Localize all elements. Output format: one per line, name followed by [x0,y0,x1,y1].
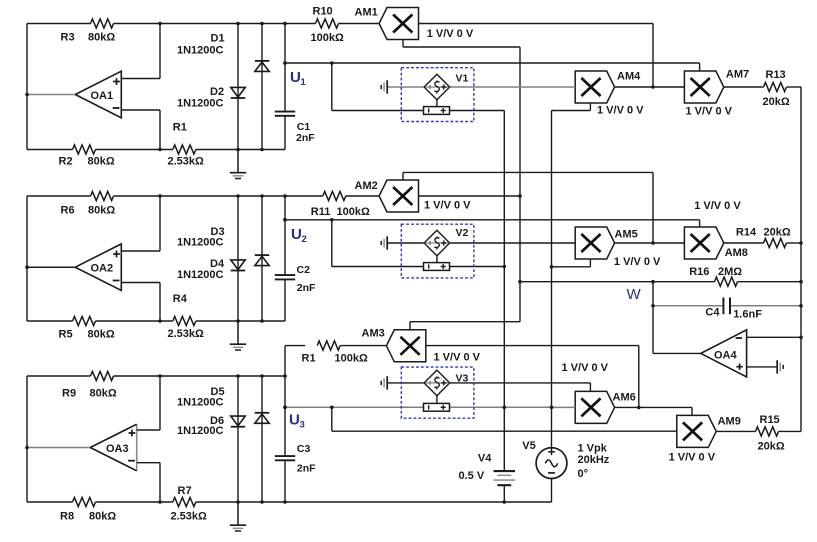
svg-text:1N1200C: 1N1200C [177,269,224,281]
svg-text:R1: R1 [302,353,316,365]
svg-text:1N1200C: 1N1200C [177,237,224,249]
svg-text:1 V/V 0 V: 1 V/V 0 V [597,105,644,117]
svg-text:1 V/V 0 V: 1 V/V 0 V [424,200,471,212]
svg-text:OA3: OA3 [106,443,129,455]
svg-text:V3: V3 [456,373,469,385]
svg-text:R16: R16 [689,266,709,278]
svg-text:1.6nF: 1.6nF [733,309,762,321]
svg-text:1N1200C: 1N1200C [177,397,224,409]
svg-text:80kΩ: 80kΩ [88,156,115,168]
svg-text:1N1200C: 1N1200C [177,98,224,110]
svg-text:AM7: AM7 [726,69,749,81]
svg-text:1 V/V 0 V: 1 V/V 0 V [686,106,733,118]
svg-text:V5: V5 [522,440,535,452]
svg-text:AM4: AM4 [617,71,641,83]
svg-text:U: U [291,226,302,243]
svg-text:R8: R8 [60,511,74,523]
svg-text:AM1: AM1 [355,7,378,19]
svg-text:1N1200C: 1N1200C [177,45,224,57]
svg-text:AM3: AM3 [362,328,385,340]
svg-text:100kΩ: 100kΩ [335,353,368,365]
svg-text:80kΩ: 80kΩ [89,511,116,523]
svg-text:V2: V2 [456,227,469,239]
svg-text:OA4: OA4 [714,350,738,362]
svg-text:2nF: 2nF [297,282,316,294]
svg-text:1 V/V 0 V: 1 V/V 0 V [434,352,481,364]
svg-text:1 V/V 0 V: 1 V/V 0 V [669,452,716,464]
svg-text:2.53kΩ: 2.53kΩ [171,511,208,523]
svg-text:R4: R4 [173,293,188,305]
svg-text:V4: V4 [478,453,492,465]
svg-text:3: 3 [300,420,305,431]
svg-text:80kΩ: 80kΩ [88,205,115,217]
svg-text:R14: R14 [736,227,757,239]
svg-text:R11: R11 [311,206,331,218]
svg-text:R9: R9 [62,388,76,400]
svg-text:80kΩ: 80kΩ [90,388,117,400]
svg-text:R7: R7 [178,485,192,497]
svg-text:AM5: AM5 [615,229,638,241]
svg-text:C3: C3 [297,443,311,455]
svg-text:0°: 0° [578,468,589,480]
svg-text:1N1200C: 1N1200C [177,425,224,437]
svg-text:R2: R2 [59,156,73,168]
svg-text:AM6: AM6 [613,392,636,404]
svg-text:80kΩ: 80kΩ [88,32,115,44]
svg-text:R5: R5 [59,329,73,341]
svg-text:C4: C4 [705,307,720,319]
svg-text:1: 1 [301,77,307,88]
svg-text:R6: R6 [61,205,75,217]
svg-text:OA2: OA2 [91,263,114,275]
svg-text:1 V/V 0 V: 1 V/V 0 V [694,200,741,212]
svg-text:2.53kΩ: 2.53kΩ [168,328,205,340]
svg-text:100kΩ: 100kΩ [311,32,344,44]
svg-text:1 V/V 0 V: 1 V/V 0 V [614,256,661,268]
svg-text:20kΩ: 20kΩ [763,96,790,108]
svg-text:R3: R3 [61,32,75,44]
svg-text:C2: C2 [297,264,311,276]
svg-text:AM8: AM8 [725,247,748,259]
svg-text:1 Vpk: 1 Vpk [578,442,608,454]
svg-text:R13: R13 [766,69,786,81]
svg-text:AM9: AM9 [718,416,741,428]
svg-text:U: U [290,69,301,86]
svg-text:D1: D1 [211,33,225,45]
svg-text:R15: R15 [760,414,780,426]
svg-text:OA1: OA1 [91,90,114,102]
svg-text:1 V/V 0 V: 1 V/V 0 V [427,28,474,40]
svg-text:R10: R10 [313,6,333,18]
svg-text:2nF: 2nF [297,463,316,475]
svg-text:100kΩ: 100kΩ [337,206,370,218]
svg-text:1 V/V 0 V: 1 V/V 0 V [562,362,609,374]
svg-text:20kΩ: 20kΩ [764,227,791,239]
svg-text:V1: V1 [456,73,469,85]
svg-text:D2: D2 [210,86,224,98]
svg-text:R1: R1 [173,122,187,134]
svg-text:2MΩ: 2MΩ [718,266,742,278]
svg-text:2nF: 2nF [296,132,315,144]
svg-text:0.5 V: 0.5 V [459,470,485,482]
svg-text:AM2: AM2 [355,180,378,192]
svg-text:2.53kΩ: 2.53kΩ [168,156,205,168]
svg-text:20kHz: 20kHz [578,454,610,466]
svg-text:20kΩ: 20kΩ [758,441,785,453]
svg-text:W: W [627,286,642,303]
svg-text:U: U [289,412,300,429]
svg-text:2: 2 [302,234,307,245]
svg-text:80kΩ: 80kΩ [88,329,115,341]
